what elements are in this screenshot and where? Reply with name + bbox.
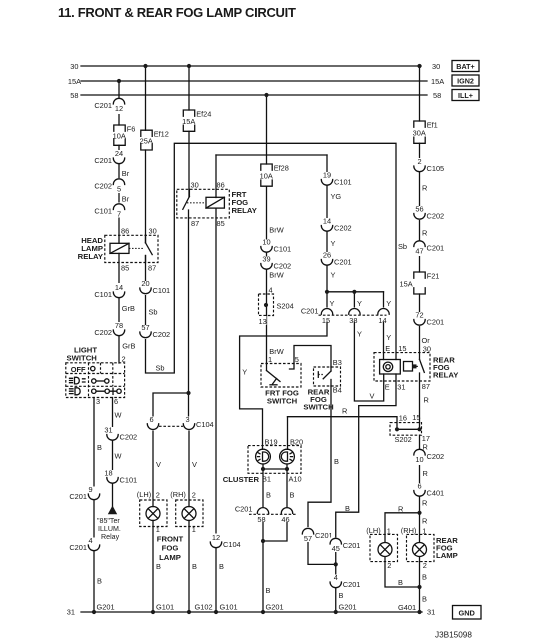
wire Y junction horizontal <box>327 291 384 293</box>
wire LH front fog lamp ground to G101 <box>152 520 154 612</box>
connector C101 pin 20 <box>138 279 170 295</box>
junction C201-57/45 merge <box>334 562 338 566</box>
svg-text:C201: C201 <box>301 307 319 316</box>
svg-text:78: 78 <box>115 321 123 330</box>
svg-text:31: 31 <box>67 608 75 617</box>
svg-text:IGN2: IGN2 <box>457 77 474 86</box>
svg-text:85: 85 <box>217 219 225 228</box>
svg-text:E: E <box>385 382 390 391</box>
svg-text:BrW: BrW <box>269 271 283 280</box>
svg-text:15: 15 <box>322 316 330 325</box>
svg-text:Ef24: Ef24 <box>196 110 211 119</box>
svg-text:B: B <box>97 577 102 586</box>
svg-text:C104: C104 <box>223 540 241 549</box>
svg-text:Ef1: Ef1 <box>427 121 438 130</box>
svg-text:C201: C201 <box>343 541 361 550</box>
connector C104 pins 6 3 row <box>146 415 214 431</box>
svg-text:1: 1 <box>268 355 272 364</box>
svg-text:G201: G201 <box>339 602 357 611</box>
svg-text:58: 58 <box>257 515 265 524</box>
svg-text:Y: Y <box>386 299 391 308</box>
wire cluster B20 ground drop and merge <box>263 464 287 541</box>
wire C201-14 branch to rear fog relay E top <box>383 292 385 360</box>
svg-text:(RH): (RH) <box>401 526 417 535</box>
connector C202 pin 10 <box>412 449 444 465</box>
svg-text:B: B <box>266 586 271 595</box>
svg-text:6: 6 <box>114 397 118 406</box>
svg-text:15: 15 <box>398 344 406 353</box>
relay FRT FOG RELAY <box>177 180 257 228</box>
switch FRT FOG SWITCH <box>261 355 301 405</box>
svg-text:R: R <box>423 443 428 452</box>
svg-text:ILL+: ILL+ <box>458 91 473 100</box>
svg-text:30A: 30A <box>413 129 426 138</box>
ground node G201 c <box>334 610 338 614</box>
svg-text:47: 47 <box>415 247 423 256</box>
svg-text:B: B <box>422 573 427 582</box>
wire Y net column x=327 (C101-19 to C201-15) then to cluster B19 <box>240 155 327 449</box>
net box IGN2 <box>452 75 479 86</box>
svg-text:58: 58 <box>70 91 78 100</box>
svg-text:15A: 15A <box>182 117 195 126</box>
wire head lamp relay 85 to light switch pin 2 <box>118 253 120 363</box>
net box ILL+ <box>452 90 479 101</box>
lamp FRONT FOG LAMP RH <box>170 490 203 534</box>
ground node G102 <box>187 610 191 614</box>
svg-text:B: B <box>339 591 344 600</box>
svg-text:12: 12 <box>115 104 123 113</box>
fuse F21 15A <box>400 272 440 295</box>
svg-text:26: 26 <box>323 251 331 260</box>
connector C201 pin 26 <box>320 251 352 267</box>
svg-text:30: 30 <box>423 344 431 353</box>
svg-text:C202: C202 <box>274 262 292 271</box>
svg-text:86: 86 <box>217 180 225 189</box>
connector C201 pin 9 <box>69 485 101 501</box>
svg-text:G101: G101 <box>156 602 174 611</box>
svg-text:R: R <box>342 407 347 416</box>
svg-text:RELAY: RELAY <box>232 206 257 215</box>
wire cluster B19 ground drop <box>262 464 264 612</box>
svg-text:10A: 10A <box>260 172 273 181</box>
svg-text:W: W <box>115 452 122 461</box>
wire frt fog relay 85 to C104-12 to G101 <box>215 209 217 613</box>
junction bus30/Ef1 <box>417 64 421 68</box>
svg-text:87: 87 <box>422 382 430 391</box>
wire ground bus 31 <box>81 611 422 613</box>
cluster with indicators B19 B20 <box>223 437 303 484</box>
svg-text:B: B <box>97 443 102 452</box>
connector C202 pin 39 <box>259 255 291 271</box>
svg-text:BrW: BrW <box>269 347 283 356</box>
svg-text:R: R <box>398 505 403 514</box>
svg-text:G201: G201 <box>266 602 284 611</box>
svg-text:C101: C101 <box>94 207 112 216</box>
svg-text:F21: F21 <box>427 272 440 281</box>
svg-text:B: B <box>266 491 271 500</box>
connector C201 pins 58 46 row <box>235 505 296 524</box>
svg-text:10: 10 <box>415 455 423 464</box>
svg-text:4: 4 <box>269 285 273 294</box>
svg-text:11. FRONT & REAR FOG LAMP CIRC: 11. FRONT & REAR FOG LAMP CIRCUIT <box>58 5 296 20</box>
svg-text:58: 58 <box>433 91 441 100</box>
wire bus 58 <box>81 94 427 96</box>
svg-text:FOG: FOG <box>162 543 179 552</box>
svg-text:87: 87 <box>191 219 199 228</box>
svg-text:E: E <box>385 344 390 353</box>
svg-text:BrW: BrW <box>269 226 283 235</box>
svg-text:1: 1 <box>156 525 160 534</box>
svg-text:CLUSTER: CLUSTER <box>223 475 260 484</box>
svg-text:C105: C105 <box>427 164 445 173</box>
wire Ef12 branch x=145.5 (bus 30 to head lamp relay 30) <box>145 66 147 130</box>
fuse Ef24 15A <box>182 110 211 132</box>
svg-text:2: 2 <box>417 157 421 166</box>
svg-text:C202: C202 <box>94 328 112 337</box>
svg-text:5: 5 <box>295 355 299 364</box>
svg-text:J3B15098: J3B15098 <box>435 631 472 640</box>
svg-text:B: B <box>398 578 403 587</box>
svg-text:R: R <box>422 184 427 193</box>
svg-text:C201: C201 <box>427 244 445 253</box>
svg-text:Y: Y <box>357 299 362 308</box>
svg-text:31: 31 <box>104 426 112 435</box>
svg-text:1: 1 <box>422 526 426 535</box>
connector C201 pins 15 38 14 row <box>301 307 391 325</box>
junction Y net 2 <box>352 290 356 294</box>
wire bus 30 <box>81 65 421 67</box>
svg-text:25A: 25A <box>140 137 153 146</box>
svg-text:1: 1 <box>192 525 196 534</box>
svg-text:B4: B4 <box>333 385 342 394</box>
svg-text:SWITCH: SWITCH <box>267 396 298 405</box>
svg-text:30: 30 <box>70 62 78 71</box>
svg-text:GrB: GrB <box>122 342 135 351</box>
svg-text:RELAY: RELAY <box>433 370 458 379</box>
junction rear lamp grounds <box>417 585 421 589</box>
svg-text:C101: C101 <box>274 245 292 254</box>
connector C202 pin 31 <box>104 426 137 442</box>
svg-text:Y: Y <box>386 333 391 342</box>
svg-text:2: 2 <box>156 491 160 500</box>
svg-text:10A: 10A <box>113 132 126 141</box>
svg-text:72: 72 <box>415 311 423 320</box>
connector C202 pin 56 <box>412 205 444 221</box>
svg-text:Y: Y <box>357 330 362 339</box>
svg-text:Y: Y <box>331 239 336 248</box>
lamp REAR FOG LAMP RH <box>401 526 434 570</box>
wire branch to C104 pin 6 <box>153 393 189 423</box>
svg-text:30: 30 <box>191 180 199 189</box>
svg-text:(LH): (LH) <box>366 526 380 535</box>
svg-text:C201: C201 <box>427 318 445 327</box>
svg-text:C202: C202 <box>427 452 445 461</box>
svg-text:C201: C201 <box>69 543 87 552</box>
ground node G101 <box>151 610 155 614</box>
wire Sb net: relay 87 down, across, up, over to rear fog relay 15 <box>146 143 397 373</box>
wire S202-17 to rear fog lamps <box>419 435 421 542</box>
fuse F6 10A <box>113 125 136 146</box>
svg-text:(RH): (RH) <box>170 490 186 499</box>
svg-text:Ef12: Ef12 <box>154 130 169 139</box>
connector C202 pin 5 <box>94 178 126 194</box>
junction frt fog feed split <box>186 391 190 395</box>
svg-text:86: 86 <box>121 226 129 235</box>
net box BAT+ <box>452 61 479 72</box>
connector C101 pin 18 <box>104 469 137 485</box>
svg-text:57: 57 <box>141 323 149 332</box>
svg-text:2: 2 <box>122 354 126 363</box>
connector C201 pin 47 <box>412 241 444 257</box>
svg-text:5: 5 <box>117 185 121 194</box>
svg-text:46: 46 <box>281 515 289 524</box>
svg-text:3: 3 <box>96 397 100 406</box>
svg-text:Y: Y <box>242 368 247 377</box>
splice S204 <box>258 285 294 326</box>
svg-text:14: 14 <box>115 283 123 292</box>
svg-text:C101: C101 <box>120 476 138 485</box>
svg-text:C201: C201 <box>334 258 352 267</box>
svg-text:B: B <box>334 457 339 466</box>
svg-text:GrB: GrB <box>122 304 135 313</box>
wire C201-38 branch to rear fog relay E <box>354 292 383 401</box>
junction Y net 1 <box>325 290 329 294</box>
svg-text:C101: C101 <box>334 178 352 187</box>
svg-text:B: B <box>345 504 350 513</box>
svg-text:56: 56 <box>415 205 423 214</box>
connector C101 pin 14 <box>94 283 126 299</box>
wire R net: S202-16 across to cluster B20 <box>288 417 398 430</box>
svg-text:Br: Br <box>122 195 130 204</box>
svg-text:3: 3 <box>185 415 189 424</box>
junction bus15A/F6 <box>117 79 121 83</box>
wire rear fog relay 87 to S202-15 <box>419 373 421 429</box>
svg-text:24: 24 <box>115 149 123 158</box>
net box GND <box>453 606 482 620</box>
lamp FRONT FOG LAMP LH <box>137 490 167 534</box>
wire F6 branch x=119 (15A to head lamp relay 86) <box>118 81 120 125</box>
svg-text:R: R <box>422 229 427 238</box>
junction cluster lamp B19 <box>261 467 265 471</box>
svg-text:14: 14 <box>378 316 386 325</box>
svg-text:A10: A10 <box>289 475 302 484</box>
svg-text:10: 10 <box>262 238 270 247</box>
fuse Ef1 30A <box>413 121 438 144</box>
svg-text:2: 2 <box>192 491 196 500</box>
svg-text:19: 19 <box>323 171 331 180</box>
svg-text:R: R <box>422 499 427 508</box>
svg-text:30: 30 <box>149 226 157 235</box>
ground node G401 <box>417 610 421 614</box>
svg-text:C201: C201 <box>94 101 112 110</box>
ground node G101 b <box>214 610 218 614</box>
svg-text:2: 2 <box>387 561 391 570</box>
svg-text:F6: F6 <box>127 125 136 134</box>
svg-text:SWITCH: SWITCH <box>303 402 334 411</box>
wire RH rear lamp ground to G401 <box>419 557 421 612</box>
svg-text:FRONT: FRONT <box>157 534 184 543</box>
wire RH front fog lamp ground to G102 <box>188 520 190 612</box>
lamp REAR FOG LAMP LH <box>366 526 397 570</box>
relay REAR FOG RELAY <box>374 344 458 391</box>
wire frt fog switch 5 to rear fog switch B3 <box>294 346 331 368</box>
svg-text:Y: Y <box>330 299 335 308</box>
svg-text:B: B <box>156 562 161 571</box>
relay HEAD LAMP RELAY <box>78 226 158 272</box>
svg-text:C101: C101 <box>153 286 171 295</box>
svg-text:31: 31 <box>427 608 435 617</box>
svg-text:31: 31 <box>397 382 405 391</box>
svg-text:R: R <box>422 517 427 526</box>
wire V to RH front fog lamp <box>188 429 190 507</box>
wire rear fog relay 31 to C201-45 to C201-4 to G201 <box>336 374 396 612</box>
wire light switch pin 3 to G201 <box>93 398 95 613</box>
svg-text:14: 14 <box>323 217 331 226</box>
svg-text:38: 38 <box>349 316 357 325</box>
svg-text:W: W <box>115 411 122 420</box>
svg-text:GND: GND <box>458 609 475 618</box>
svg-text:V: V <box>192 460 197 469</box>
svg-text:87: 87 <box>148 263 156 272</box>
connector C201 pin 12 <box>94 98 126 114</box>
svg-text:Relay: Relay <box>101 533 120 541</box>
svg-text:C202: C202 <box>120 433 138 442</box>
ground node G201 b <box>261 610 265 614</box>
svg-text:2: 2 <box>423 561 427 570</box>
wire cluster lamp bottoms link <box>263 468 287 470</box>
connector C201 pin 4 <box>329 573 361 589</box>
svg-text:RELAY: RELAY <box>78 252 103 261</box>
svg-text:18: 18 <box>104 469 112 478</box>
svg-text:B20: B20 <box>290 437 303 446</box>
connector C101 pin 7 <box>94 203 126 219</box>
wire rear fog switch B4 to C201-57 <box>308 386 331 528</box>
svg-text:7: 7 <box>117 210 121 219</box>
switch LIGHT SWITCH <box>66 346 126 406</box>
fuse Ef28 10A <box>260 164 289 187</box>
svg-text:4: 4 <box>334 573 338 582</box>
wire branch to LH rear fog lamp <box>385 513 420 543</box>
svg-text:20: 20 <box>141 279 149 288</box>
label FRONT FOG LAMP <box>157 534 184 562</box>
junction bus58/Ef28 <box>264 93 268 97</box>
junction cluster lamp B20 <box>285 467 289 471</box>
connector C201 pin 24 <box>94 149 126 165</box>
wire right power column x=419.5 <box>419 66 421 121</box>
connector C201 pin 57 <box>301 527 333 543</box>
svg-text:LAMP: LAMP <box>436 551 458 560</box>
svg-text:OFF: OFF <box>71 365 86 374</box>
svg-text:15A: 15A <box>431 77 444 86</box>
svg-text:30: 30 <box>432 62 440 71</box>
svg-text:C401: C401 <box>427 489 445 498</box>
svg-text:C201: C201 <box>343 580 361 589</box>
svg-text:B: B <box>219 562 224 571</box>
svg-text:Y: Y <box>331 271 336 280</box>
svg-text:B3: B3 <box>333 358 342 367</box>
svg-text:15A: 15A <box>68 77 81 86</box>
svg-text:C202: C202 <box>153 330 171 339</box>
ground node G201 <box>92 610 96 614</box>
svg-text:13: 13 <box>259 317 267 326</box>
svg-text:Sb: Sb <box>149 308 158 317</box>
wire frt fog relay coil 86 riser and link <box>215 155 217 198</box>
junction bus30/Ef12 <box>143 64 147 68</box>
svg-text:G201: G201 <box>97 602 115 611</box>
wire light switch pin 6 to illum relay arrow <box>112 398 114 507</box>
svg-text:G101: G101 <box>220 602 238 611</box>
connector C202 pin 14 <box>320 217 352 233</box>
svg-text:C202: C202 <box>334 224 352 233</box>
svg-text:Br: Br <box>122 169 130 178</box>
svg-text:BAT+: BAT+ <box>456 62 474 71</box>
svg-text:6: 6 <box>417 482 421 491</box>
svg-text:15A: 15A <box>400 279 413 288</box>
svg-text:Sb: Sb <box>156 364 165 373</box>
svg-text:Sb: Sb <box>398 242 407 251</box>
connector C201 pin 72 <box>412 311 444 327</box>
svg-text:C202: C202 <box>94 182 112 191</box>
svg-text:B1: B1 <box>262 475 271 484</box>
wire V to LH front fog lamp <box>152 429 154 507</box>
svg-text:B: B <box>290 491 295 500</box>
svg-text:C202: C202 <box>427 212 445 221</box>
svg-text:C201: C201 <box>94 156 112 165</box>
svg-text:16: 16 <box>399 413 407 422</box>
svg-text:R: R <box>424 396 429 405</box>
switch REAR FOG SWITCH <box>303 358 342 412</box>
svg-text:LAMP: LAMP <box>159 553 181 562</box>
svg-text:Ef28: Ef28 <box>274 164 289 173</box>
connector C202 pin 78 <box>94 321 126 337</box>
wire C104 pin 3 drop <box>188 393 190 423</box>
svg-text:Or: Or <box>422 336 431 345</box>
svg-text:R: R <box>423 469 428 478</box>
svg-text:45: 45 <box>332 544 340 553</box>
svg-text:V: V <box>156 460 161 469</box>
connector C101 pin 10 <box>259 238 291 254</box>
wire bus 15A <box>81 80 427 82</box>
junction cluster grounds <box>261 539 265 543</box>
connector C101 pin 19 <box>320 171 352 187</box>
connector C105 pin 2 <box>412 157 444 173</box>
junction rear lamp feed split <box>417 511 421 515</box>
connector C201 pin 45 <box>329 538 361 554</box>
svg-text:85: 85 <box>121 263 129 272</box>
connector C202 pin 57 <box>138 323 170 339</box>
svg-text:ILLUM.: ILLUM. <box>98 525 121 533</box>
svg-text:12: 12 <box>212 533 220 542</box>
junction bus30/Ef24 <box>187 64 191 68</box>
svg-text:C101: C101 <box>94 290 112 299</box>
svg-text:YG: YG <box>331 192 342 201</box>
svg-text:SWITCH: SWITCH <box>67 354 98 363</box>
svg-text:15: 15 <box>412 413 420 422</box>
svg-text:G102: G102 <box>195 602 213 611</box>
connector C201 pin 4 <box>69 536 101 552</box>
splice S202 <box>390 413 430 444</box>
fuse Ef12 25A <box>140 130 169 150</box>
svg-text:6: 6 <box>149 415 153 424</box>
wire frt fog relay 87 to C104 junction <box>188 210 190 393</box>
svg-text:9: 9 <box>88 485 92 494</box>
connector C401 pin 6 <box>412 482 444 498</box>
svg-text:(LH): (LH) <box>137 490 151 499</box>
wire Ef28 branch x=266.5 (bus 58 to frt fog switch 1) <box>266 95 268 164</box>
svg-text:S204: S204 <box>277 302 294 311</box>
wire Ef24 branch x=189 (bus 30 to frt fog relay 30) <box>188 66 190 110</box>
wire S202 internal link <box>397 428 420 430</box>
